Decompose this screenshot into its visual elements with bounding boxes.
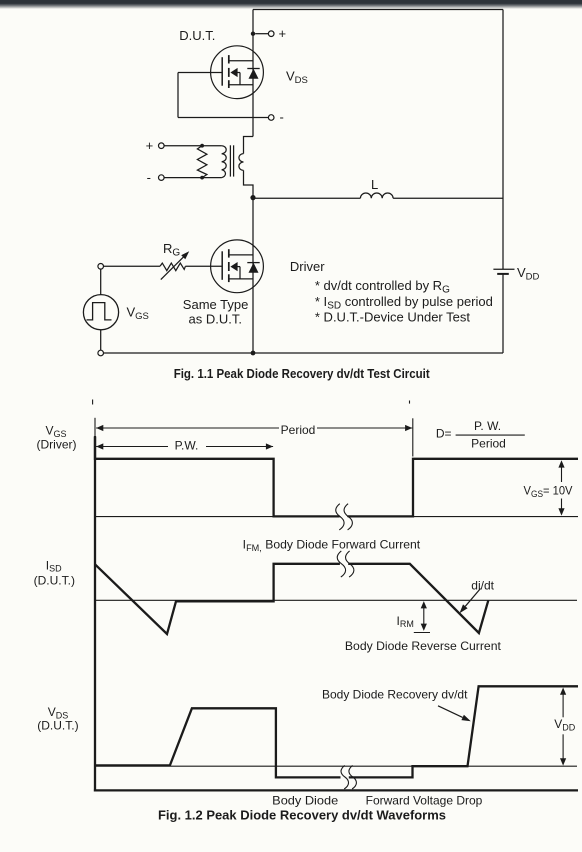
break squiggle VGS bbox=[341, 513, 348, 520]
break squiggle VDS bbox=[341, 765, 356, 789]
svg-text:P.W.: P.W. bbox=[175, 439, 199, 453]
svg-text:* dv/dt controlled by RG: * dv/dt controlled by RG bbox=[315, 278, 450, 295]
wire - terminal row bbox=[178, 117, 268, 119]
wire secondary bottom step bbox=[244, 170, 254, 353]
top dark bar bbox=[0, 0, 582, 9]
svg-text:(Driver): (Driver) bbox=[37, 437, 77, 451]
svg-text:IFM, Body Diode Forward Curren: IFM, Body Diode Forward Current bbox=[243, 538, 421, 553]
axis vertical main bbox=[94, 436, 96, 792]
svg-text:Body Diode: Body Diode bbox=[272, 793, 338, 807]
svg-text:Fig. 1.2 Peak Diode Recovery d: Fig. 1.2 Peak Diode Recovery dv/dt Wavef… bbox=[158, 807, 446, 822]
boundary line period end bbox=[412, 418, 414, 456]
svg-text:(D.U.T.): (D.U.T.) bbox=[34, 573, 75, 587]
svg-text:Period: Period bbox=[471, 437, 506, 451]
wire right vertical lower bbox=[502, 274, 504, 353]
svg-text:* D.U.T.-Device Under Test: * D.U.T.-Device Under Test bbox=[315, 310, 470, 325]
waveform VDS (D.U.T.) bbox=[95, 686, 578, 777]
wire DUT gate bbox=[178, 72, 222, 74]
tick top-right bbox=[409, 401, 411, 404]
wire right vertical upper bbox=[502, 10, 504, 270]
wire main left vertical (drain bus) bbox=[252, 10, 254, 137]
wire bottom horizontal bbox=[103, 352, 503, 354]
transformer T1 secondary winding bbox=[239, 154, 244, 171]
waveform ISD (D.U.T.) bbox=[95, 564, 488, 634]
VGS baseline thin bbox=[95, 516, 578, 518]
transformer T1 core bbox=[229, 145, 231, 176]
svg-text:+: + bbox=[279, 26, 287, 41]
svg-text:Body Diode Recovery dv/dt: Body Diode Recovery dv/dt bbox=[322, 687, 468, 701]
node junction dots bbox=[251, 32, 255, 36]
svg-text:P. W.: P. W. bbox=[474, 419, 501, 433]
wire inductor to VDD rail bbox=[393, 197, 503, 199]
resistor R (damping, across primary) bbox=[197, 146, 207, 178]
svg-text:D=: D= bbox=[436, 427, 452, 441]
svg-text:(D.U.T.): (D.U.T.) bbox=[37, 718, 78, 732]
dimension arrow IRM bbox=[423, 606, 425, 627]
dimension arrow VGS=10V bbox=[561, 465, 563, 482]
svg-text:* ISD controlled by pulse peri: * ISD controlled by pulse period bbox=[315, 294, 493, 311]
inductor L bbox=[360, 193, 393, 198]
svg-text:Fig. 1.1 Peak Diode Recovery d: Fig. 1.1 Peak Diode Recovery dv/dt Test … bbox=[174, 366, 431, 381]
wire VGS to RG bbox=[103, 265, 160, 267]
VDS zero line thin bbox=[95, 765, 577, 767]
svg-text:VGS= 10V: VGS= 10V bbox=[524, 484, 573, 499]
mosfet Q1 D.U.T. bbox=[211, 46, 264, 99]
wire transformer - lead bbox=[164, 177, 222, 179]
wire gate feedback vertical bbox=[177, 73, 179, 118]
tick top-left bbox=[92, 400, 94, 405]
svg-text:Driver: Driver bbox=[290, 259, 325, 274]
svg-text:Forward Voltage Drop: Forward Voltage Drop bbox=[366, 793, 483, 807]
axis vertical thin top bbox=[94, 418, 96, 436]
wire RG to driver gate bbox=[185, 265, 222, 267]
dimension arrow P.W. bbox=[96, 446, 273, 448]
wire + terminal (drain) bbox=[255, 33, 268, 35]
tick IRM level bbox=[414, 632, 430, 634]
break squiggle ISD bbox=[337, 551, 354, 577]
svg-text:L: L bbox=[371, 177, 378, 192]
svg-text:as D.U.T.: as D.U.T. bbox=[189, 311, 242, 326]
arrow of variable resistor RG bbox=[181, 251, 189, 259]
wire transformer + lead bbox=[164, 145, 222, 147]
battery V_DD bbox=[493, 268, 514, 270]
open terminal circles bbox=[98, 31, 274, 356]
svg-text:-: - bbox=[280, 110, 284, 125]
dimension arrow Period bbox=[96, 427, 412, 429]
svg-text:Period: Period bbox=[281, 423, 316, 437]
wire secondary top step bbox=[244, 137, 254, 154]
source VGS (pulse generator) bbox=[83, 295, 118, 330]
resistor RG (variable) bbox=[160, 263, 185, 271]
body diode of Q2 bbox=[247, 262, 259, 264]
svg-text:-: - bbox=[147, 170, 151, 185]
dimension arrow VDD bbox=[562, 692, 564, 717]
wire top horizontal bbox=[253, 9, 503, 11]
wire VGS source leads bbox=[100, 269, 102, 295]
svg-text:di/dt: di/dt bbox=[471, 579, 494, 593]
svg-text:+: + bbox=[146, 138, 154, 153]
mosfet Q2 Driver bbox=[211, 240, 264, 293]
svg-text:Same Type: Same Type bbox=[183, 297, 249, 312]
body diode of Q1 bbox=[247, 68, 259, 70]
waveform VGS (Driver) bbox=[95, 437, 578, 516]
svg-text:D.U.T.: D.U.T. bbox=[179, 28, 215, 43]
wire node to inductor bbox=[253, 197, 360, 199]
ISD zero line thin bbox=[95, 599, 577, 601]
transformer T1 primary winding bbox=[222, 146, 227, 178]
axis horizontal bottom bbox=[94, 789, 578, 791]
svg-text:Body Diode Reverse Current: Body Diode Reverse Current bbox=[345, 639, 502, 653]
